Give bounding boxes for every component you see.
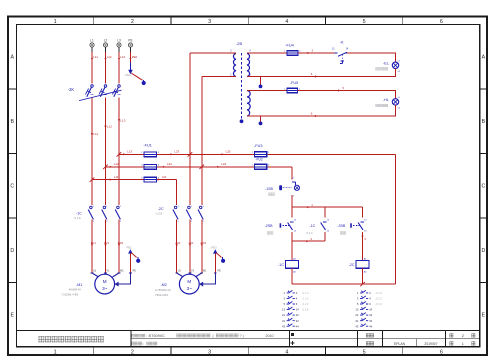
svg-text:-2C: -2C [158, 207, 164, 211]
wire M1 PE blue [115, 273, 130, 284]
svg-text:-2B: -2B [236, 41, 242, 46]
ground stub sec2 [260, 116, 262, 122]
svg-text:L21: L21 [162, 175, 167, 179]
motor -M1 pigtails [92, 273, 119, 277]
title cell 第 1 张 [450, 341, 454, 345]
title mark square [291, 333, 294, 336]
contactor -1C pole3 [117, 206, 120, 209]
svg-text:0.75KW/2.2A: 0.75KW/2.2A [155, 288, 171, 292]
wire L2 phase vertical [105, 52, 107, 273]
motor -M2 pigtails [177, 273, 202, 277]
transformer -2B core [241, 53, 243, 119]
wire sec1 to FU4 [247, 52, 287, 54]
junction row3-L1 [90, 177, 95, 182]
svg-text:21: 21 [282, 313, 285, 317]
svg-text:-1C: -1C [278, 263, 284, 267]
svg-text:PE0: PE0 [132, 55, 138, 59]
svg-text:M: M [187, 279, 191, 284]
svg-text:2010: 2010 [266, 334, 274, 338]
svg-text:-HL: -HL [383, 98, 389, 102]
fuse -FU3 [255, 152, 267, 157]
title project desc 项目描述 BT6090C [132, 334, 135, 337]
svg-text:31: 31 [282, 319, 285, 323]
title company name 长沙机床有限责任公司 [39, 336, 45, 342]
svg-text:3~: 3~ [102, 286, 108, 291]
wire M2 PE blue [200, 273, 216, 284]
wire 2C pole1 feed [176, 180, 178, 273]
svg-text:L23: L23 [174, 150, 179, 154]
fuse -FU2 [255, 164, 267, 169]
wire PE vertical [130, 52, 132, 63]
svg-text:L25: L25 [226, 150, 231, 154]
svg-text:Y132M1-4-B3: Y132M1-4-B3 [62, 292, 79, 296]
motor -M2 [179, 274, 199, 294]
junction row2-L2 [103, 165, 108, 170]
svg-text:-FU1: -FU1 [143, 143, 151, 147]
ground -PE1 [128, 70, 133, 74]
svg-text:1: 1 [54, 19, 57, 25]
fuse -FU1 pole3 [144, 177, 157, 182]
motor -M1 [95, 274, 115, 294]
wire primary top [190, 52, 236, 54]
title cell 共 2 张 [450, 333, 454, 337]
svg-text:2: 2 [131, 350, 134, 356]
wire 3SB to coil2C [362, 232, 364, 261]
svg-text:-2K: -2K [68, 87, 75, 92]
svg-text:3: 3 [208, 350, 211, 356]
svg-text:1: 1 [54, 350, 57, 356]
wire L3 phase vertical [118, 52, 120, 273]
svg-text:2019/5/7: 2019/5/7 [424, 342, 437, 346]
wire branch 2SB top [291, 207, 293, 217]
svg-text:D: D [482, 248, 486, 254]
junction coil2C-return [360, 282, 365, 286]
label 电源指示 [376, 104, 379, 107]
svg-text:L11: L11 [93, 55, 98, 59]
svg-text:-1C: -1C [76, 212, 82, 216]
svg-text:43: 43 [355, 324, 358, 328]
fuse -FU1 pole2 [144, 164, 157, 169]
svg-text:14: 14 [296, 308, 299, 312]
svg-text:A: A [482, 55, 486, 61]
coil -1C [286, 261, 299, 269]
svg-text:21: 21 [355, 313, 358, 317]
wire L1 phase vertical [91, 52, 93, 273]
svg-text:-2C: -2C [349, 263, 355, 267]
wire control from FU2 to 1SB [291, 167, 293, 180]
lamp -HL [392, 99, 398, 105]
svg-text:-M2: -M2 [161, 283, 167, 287]
wire row2 L12 [106, 166, 293, 168]
fuse -FU4 [287, 51, 298, 55]
svg-text:22: 22 [296, 313, 299, 317]
svg-text:5: 5 [363, 350, 366, 356]
wire control rail right [395, 154, 397, 284]
wire HL return [247, 105, 396, 116]
svg-text:L13: L13 [120, 55, 125, 59]
wire K to EL [347, 53, 395, 62]
svg-text:L3: L3 [117, 39, 121, 43]
svg-text:PE: PE [133, 269, 137, 272]
svg-text:L12: L12 [107, 125, 112, 129]
wire transformer primary feed a [189, 53, 191, 273]
contactor -2C pole3 [199, 206, 202, 209]
wire sec2 to FU5 [247, 90, 287, 92]
svg-text:31: 31 [355, 319, 358, 323]
zone row ticks left/right [8, 88, 17, 90]
svg-text:C: C [482, 184, 486, 190]
wire 1SB to node1 [291, 195, 293, 207]
svg-text:32: 32 [296, 319, 299, 323]
svg-text:L13: L13 [120, 118, 125, 122]
junction row2-x202 [199, 165, 204, 170]
svg-text:BT6090C: BT6090C [149, 333, 166, 338]
label 停止 [269, 193, 272, 196]
svg-text:/1.2.C: /1.2.C [302, 303, 309, 306]
svg-text:/1.1.C: /1.1.C [302, 292, 309, 295]
wire node1 horizontal [292, 206, 363, 208]
svg-text:-K: -K [340, 40, 344, 44]
svg-text:B: B [10, 119, 14, 125]
wire FU4 to K [298, 52, 337, 54]
svg-text:L2: L2 [104, 39, 108, 43]
wire control bottom return [292, 283, 396, 285]
svg-text:PE: PE [128, 39, 132, 43]
svg-text:-M1: -M1 [76, 283, 82, 287]
svg-text::: : [146, 334, 147, 338]
svg-text:22: 22 [369, 313, 372, 317]
svg-text:? ): ? ) [240, 334, 244, 338]
title sheet name 安装地点: 电路图 [132, 342, 135, 345]
svg-text:-PE2: -PE2 [126, 245, 132, 249]
svg-text:E: E [482, 313, 486, 319]
svg-text:-FU5: -FU5 [290, 81, 298, 85]
pushbutton -3SB [358, 223, 363, 230]
label 快速 [340, 231, 343, 234]
svg-text:/1.5.B: /1.5.B [156, 211, 163, 215]
svg-text::: : [143, 342, 144, 346]
contactor -1C pole1 [90, 206, 93, 209]
svg-text:A: A [10, 55, 14, 61]
svg-text:4: 4 [285, 350, 288, 356]
svg-text:EPLAN: EPLAN [394, 342, 406, 346]
svg-text:4KW/8.4A: 4KW/8.4A [69, 288, 81, 292]
wire 2SB bottom [291, 232, 293, 241]
svg-text:B: B [482, 119, 486, 125]
svg-text:PE: PE [218, 269, 222, 272]
svg-text:-PE1: -PE1 [125, 73, 131, 77]
transformer -2B primary coil [233, 54, 236, 77]
svg-text:13: 13 [355, 308, 358, 312]
wire transformer primary feed b [201, 77, 203, 274]
junction row1-L3 [117, 152, 122, 157]
title cell 图号 [366, 333, 370, 337]
lamp -EL [392, 62, 398, 68]
svg-text:4: 4 [285, 19, 288, 25]
svg-text:-3SB: -3SB [337, 224, 346, 228]
contactor -2C pole1 [174, 206, 177, 209]
svg-text:1: 1 [462, 342, 464, 346]
wire coil2C bottom [362, 268, 364, 284]
svg-text:-FU3: -FU3 [254, 144, 262, 148]
svg-text:L22: L22 [167, 162, 172, 166]
coil -2C [356, 261, 369, 269]
svg-text:3: 3 [208, 19, 211, 25]
svg-text:14: 14 [369, 308, 372, 312]
wire primary bottom [202, 76, 236, 78]
wire row3 L11 [92, 179, 177, 181]
svg-text:6: 6 [440, 350, 443, 356]
fuse -FU5 [287, 88, 298, 92]
contactor -1C pole2 [103, 206, 106, 209]
svg-text:-EL: -EL [383, 62, 389, 66]
svg-text:-PE3: -PE3 [211, 245, 217, 249]
transformer core ground dot [240, 119, 244, 123]
svg-text:L12: L12 [107, 55, 112, 59]
svg-text:/1.4.C: /1.4.C [306, 231, 313, 235]
pushbutton -2SB [288, 223, 293, 230]
svg-text:/2.2.C: /2.2.C [376, 298, 383, 301]
svg-text:44: 44 [369, 324, 372, 328]
svg-text:-1C: -1C [309, 224, 315, 228]
svg-text:43: 43 [282, 324, 285, 328]
svg-text:-FU4: -FU4 [285, 43, 293, 47]
transformer -2B secondary1 coil [247, 54, 250, 77]
svg-text:-1SB: -1SB [265, 187, 274, 191]
svg-text:M: M [103, 279, 107, 284]
svg-text:-2SB: -2SB [265, 224, 274, 228]
svg-text:E: E [10, 313, 14, 319]
title cell 设计 [366, 341, 370, 345]
svg-text:6: 6 [440, 19, 443, 25]
svg-text:44: 44 [296, 324, 299, 328]
svg-text:L11: L11 [93, 132, 98, 136]
junction row1-x190 [188, 152, 193, 157]
wire FU5 to HL [298, 91, 396, 99]
svg-text:L1: L1 [90, 39, 94, 43]
wire node2 horizontal [292, 240, 325, 242]
svg-text:/1.4.E: /1.4.E [74, 216, 81, 220]
ground stub sec1 [260, 77, 262, 85]
wire row1 L13 [119, 153, 396, 155]
svg-text:/1.6.E: /1.6.E [302, 309, 309, 312]
zone column ticks top/bottom [93, 17, 95, 25]
wire coil1C bottom [291, 268, 293, 284]
svg-text:3~: 3~ [187, 286, 193, 291]
wire branch 1C-aux [324, 207, 326, 217]
wire node2 to coil1C [291, 241, 293, 260]
svg-text:D: D [10, 248, 14, 254]
fuse -FU1 pole1 [144, 152, 157, 157]
svg-text:2: 2 [131, 19, 134, 25]
svg-text:-FU2: -FU2 [255, 158, 262, 162]
svg-text:Y802-6-B3: Y802-6-B3 [155, 293, 168, 297]
svg-text:/2.2.C: /2.2.C [376, 303, 383, 306]
svg-text:2: 2 [462, 334, 464, 338]
svg-text:C: C [10, 184, 14, 190]
wire EL return [247, 69, 396, 77]
svg-text:L24: L24 [221, 162, 226, 166]
title mark plus [290, 341, 294, 345]
label 机床照明 [376, 67, 379, 70]
svg-text:L12: L12 [114, 162, 119, 166]
svg-text:5: 5 [363, 19, 366, 25]
title block grid [17, 330, 480, 332]
wire branch 3SB top [362, 207, 364, 217]
svg-text:L11: L11 [114, 175, 119, 179]
contactor -2C pole2 [188, 206, 191, 209]
svg-text:/1.2.C: /1.2.C [302, 298, 309, 301]
svg-text:32: 32 [369, 319, 372, 323]
svg-text:13: 13 [282, 308, 285, 312]
transformer -2B secondary2 coil [247, 91, 250, 117]
label 起动 [267, 231, 270, 234]
svg-text:/2.1.C: /2.1.C [376, 292, 383, 295]
svg-text:L13: L13 [127, 150, 132, 154]
aux contact -1C [321, 223, 326, 230]
